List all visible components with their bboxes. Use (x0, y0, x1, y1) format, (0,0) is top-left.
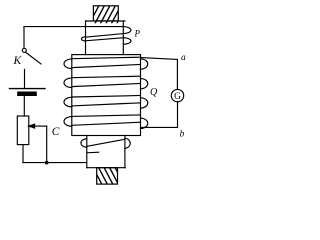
svg-text:C: C (52, 126, 60, 138)
svg-text:G: G (174, 92, 181, 102)
svg-text:K: K (13, 55, 23, 67)
svg-text:b: b (180, 130, 185, 140)
svg-text:a: a (181, 53, 186, 63)
svg-text:P: P (134, 29, 141, 39)
svg-text:Q: Q (150, 87, 158, 98)
